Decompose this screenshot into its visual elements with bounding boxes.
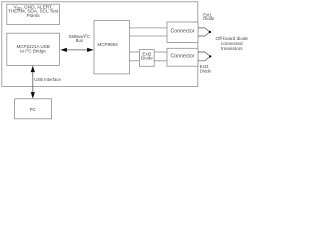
test points block: [7, 4, 60, 24]
wire net4 left: [129, 60, 139, 62]
PC block: [15, 99, 52, 119]
SMBus arrow: [60, 48, 93, 52]
wire net4 right: [154, 60, 167, 62]
wire net3 right: [154, 51, 167, 53]
wire net2: [129, 35, 167, 37]
SMBus/I2C bus label: [69, 33, 90, 43]
svg-text:Bus: Bus: [76, 38, 83, 43]
Ext3 transistor Q2: [198, 52, 210, 61]
connector 2 block: [167, 48, 198, 66]
Ext2 diode block: [140, 50, 155, 67]
off-board transistors note: [216, 36, 249, 51]
svg-text:Diode: Diode: [141, 56, 153, 61]
svg-text:Connector: Connector: [171, 29, 195, 35]
wire net1: [129, 27, 167, 29]
svg-text:Diode: Diode: [200, 68, 212, 73]
Ext1 transistor Q1: [198, 28, 210, 36]
board outline: [2, 2, 198, 87]
connector 1 block: [167, 22, 198, 42]
svg-text:PC: PC: [30, 107, 37, 112]
USB arrow: [31, 66, 35, 99]
MCP9904 block: [94, 21, 129, 74]
MCP2221A block: [7, 33, 60, 65]
wire net3 left: [129, 51, 139, 53]
svg-text:MCP9904: MCP9904: [97, 42, 118, 47]
svg-text:Diode: Diode: [203, 16, 215, 21]
MCP2221A label: [16, 44, 49, 53]
test points label: [8, 4, 59, 18]
svg-text:USB Interface: USB Interface: [34, 77, 61, 82]
svg-text:Connector: Connector: [171, 54, 195, 60]
Ext3 diode label: [200, 64, 212, 73]
Ext2 diode label: [141, 51, 153, 60]
svg-text:Points: Points: [27, 13, 41, 18]
svg-text:to I2C Bridge: to I2C Bridge: [20, 48, 46, 53]
svg-text:transistors: transistors: [221, 46, 243, 51]
Ext1 diode label: [203, 12, 215, 21]
